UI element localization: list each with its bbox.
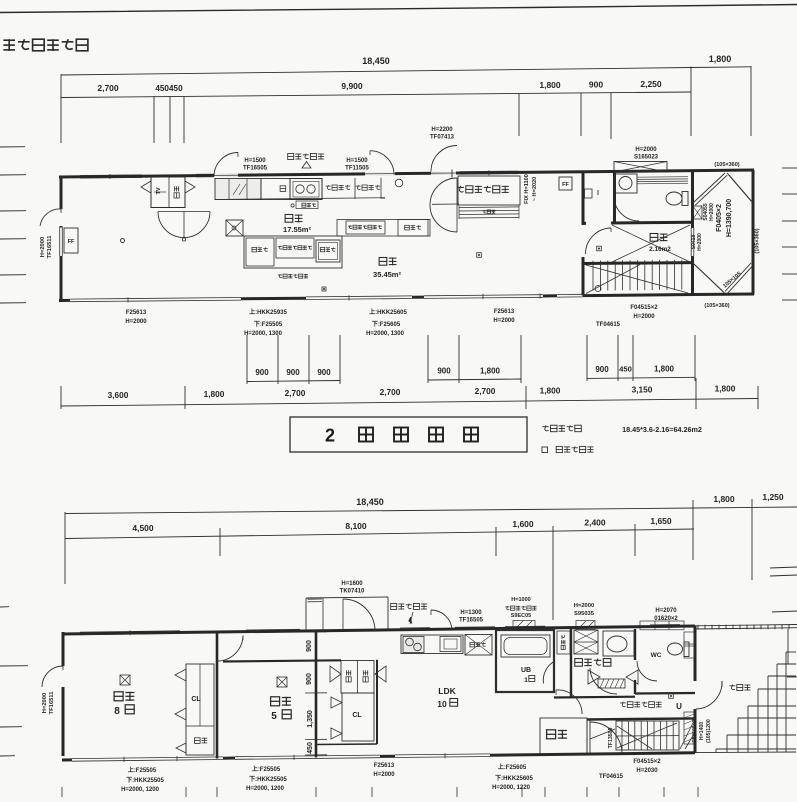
2F left outer wall — [60, 176, 63, 210]
floor area note — [542, 425, 581, 432]
svg-text:450: 450 — [307, 742, 314, 754]
svg-text:1,350: 1,350 — [307, 710, 314, 728]
svg-text:35.45m²: 35.45m² — [373, 270, 401, 279]
受付スペース — [458, 176, 520, 205]
closets right of 5帖 — [341, 661, 374, 694]
svg-text:1,800: 1,800 — [204, 389, 225, 399]
svg-text:TF04615: TF04615 — [596, 322, 621, 328]
interior dim chain x=316 — [305, 631, 327, 633]
svg-text:H=2000, 1200: H=2000, 1200 — [246, 786, 285, 792]
svg-text:9,900: 9,900 — [341, 81, 363, 91]
svg-text:TV: TV — [156, 187, 162, 194]
sink — [440, 637, 461, 652]
svg-text:1,800: 1,800 — [715, 384, 736, 394]
svg-text:H=2000: H=2000 — [373, 772, 395, 778]
porch bottom edge — [695, 751, 796, 754]
svg-text:1,650: 1,650 — [650, 516, 672, 526]
ポーチ label — [729, 685, 750, 691]
CL box (5帖) — [342, 693, 374, 741]
wall west of 5帖 — [216, 632, 219, 759]
svg-text:H=2000: H=2000 — [709, 203, 715, 221]
svg-text:H=2070: H=2070 — [655, 608, 677, 614]
emergency light mark — [477, 253, 482, 258]
2F tier-A dim segments — [247, 381, 340, 382]
svg-text:上:F25505: 上:F25505 — [128, 766, 157, 774]
ワークテーブル — [346, 221, 385, 234]
svg-text:900: 900 — [306, 640, 313, 652]
svg-text:450: 450 — [619, 365, 632, 374]
1F left outer wall — [62, 632, 65, 666]
svg-text:2,700: 2,700 — [285, 388, 306, 398]
2F top wall window segments — [80, 177, 142, 180]
svg-text:CL: CL — [191, 696, 201, 703]
UB bath — [496, 630, 554, 692]
svg-text:2,700: 2,700 — [475, 386, 496, 396]
svg-text:上:F25605: 上:F25605 — [498, 763, 527, 771]
svg-text:UB: UB — [521, 667, 531, 674]
room 洋室8帖 — [120, 675, 130, 685]
FF heater 2F left — [64, 228, 78, 253]
svg-text:下:F25505: 下:F25505 — [254, 321, 283, 328]
svg-text:上:HKK25935: 上:HKK25935 — [249, 308, 287, 316]
note text すること top-left — [3, 39, 88, 51]
1F overall dim 18,450 — [65, 508, 695, 514]
door mark — [175, 708, 186, 720]
narrow cabinet with rotated label — [557, 631, 570, 654]
svg-text:8,100: 8,100 — [345, 521, 367, 531]
冷蔵庫 1F — [465, 635, 492, 656]
svg-text:H=1400: H=1400 — [699, 722, 705, 740]
vent mark — [302, 162, 311, 169]
svg-text:CL: CL — [352, 712, 362, 719]
sink unit — [215, 179, 261, 200]
wall west of 洗面 — [570, 628, 572, 698]
1F bottom outer wall (walls + window runs) — [62, 758, 72, 761]
1F left door arc — [42, 666, 63, 687]
entry door arc — [590, 722, 622, 754]
svg-text:3,600: 3,600 — [108, 390, 129, 400]
svg-text:2,250: 2,250 — [640, 79, 662, 89]
window with X above WC — [614, 162, 667, 173]
corridor door arc — [586, 228, 612, 254]
svg-text:8: 8 — [114, 706, 120, 717]
2F tier-B dim line — [61, 399, 758, 407]
svg-text:1,800: 1,800 — [654, 364, 675, 373]
door mark — [330, 666, 341, 682]
bottom edge dim ticks — [61, 787, 63, 797]
WC door arc — [614, 196, 639, 221]
svg-text:F04515×2: F04515×2 — [633, 759, 661, 765]
svg-text:900: 900 — [437, 367, 451, 376]
svg-text:1,800: 1,800 — [540, 385, 561, 395]
1F outer top wall — [62, 626, 695, 634]
svg-text:4,500: 4,500 — [132, 523, 154, 533]
洗面 door arc — [590, 668, 617, 694]
corridor door arc (5帖) — [218, 636, 244, 662]
FF heater 2F right — [559, 177, 572, 190]
svg-text:1,800: 1,800 — [709, 54, 732, 64]
svg-text:H=1500: H=1500 — [346, 158, 368, 164]
svg-text:18.45*3.6-2.16=64.26m2: 18.45*3.6-2.16=64.26m2 — [622, 425, 702, 434]
emergency light mark corridor — [597, 246, 602, 251]
svg-text:10: 10 — [437, 699, 447, 709]
svg-text:TF16511: TF16511 — [49, 691, 55, 715]
svg-text:01620×2: 01620×2 — [654, 616, 678, 622]
small fixture corridor — [585, 189, 593, 198]
ワゴンラック label — [278, 274, 308, 278]
svg-text:TF11505: TF11505 — [345, 166, 369, 172]
light mark on sill — [322, 287, 326, 291]
bay door arc — [343, 599, 375, 631]
エントランス hall — [620, 702, 661, 708]
winder diagonal — [680, 721, 694, 749]
WC wash basin — [615, 174, 637, 193]
counter 台 — [261, 179, 290, 200]
right margin row stubs — [782, 167, 797, 169]
closet strip CL/収納 (8帖) — [186, 664, 214, 755]
kitchen unit row bottom line — [215, 198, 385, 200]
svg-text:F25613: F25613 — [126, 310, 147, 316]
svg-text:TF07413: TF07413 — [430, 135, 455, 141]
door centerline — [432, 203, 459, 205]
排気口出し label — [288, 154, 324, 160]
svg-text:H=2000: H=2000 — [493, 318, 515, 324]
stair diagonal 2 — [586, 265, 640, 294]
kitchen door arc 1F — [431, 610, 452, 630]
svg-text:(105)1200: (105)1200 — [706, 719, 712, 743]
svg-text:1,800: 1,800 — [713, 494, 735, 504]
冷蔵庫 — [246, 238, 274, 266]
svg-text:17.55m²: 17.55m² — [283, 225, 311, 234]
svg-text:H=1500: H=1500 — [244, 158, 266, 164]
収納 label rotated — [174, 186, 179, 198]
svg-text:下:HKK25605: 下:HKK25605 — [495, 775, 533, 782]
svg-text:WC: WC — [651, 652, 662, 659]
玄関 — [540, 718, 587, 755]
客席 label — [379, 258, 396, 266]
vent arrow — [410, 612, 413, 624]
1F right wall of house — [694, 626, 697, 681]
製氷機 — [316, 240, 340, 262]
svg-text:TF16505: TF16505 — [243, 166, 268, 172]
svg-text:H=2030: H=2030 — [636, 768, 658, 774]
svg-text:F04515×2: F04515×2 — [630, 305, 658, 311]
svg-text:~ H=2020: ~ H=2020 — [532, 177, 538, 202]
svg-text:(105×360): (105×360) — [755, 228, 761, 253]
door mark — [176, 743, 186, 753]
hall to genkan door arc — [556, 690, 582, 714]
svg-text:U: U — [676, 702, 682, 711]
winder diagonal 2 — [685, 734, 694, 749]
svg-text:S9EC05: S9EC05 — [511, 613, 532, 619]
svg-text:F04505×3: F04505×3 — [692, 719, 698, 743]
shelf hatch band right of basin — [637, 176, 688, 179]
LDK kitchen counter — [401, 635, 463, 654]
label SK元 — [302, 203, 316, 207]
台 label — [280, 186, 286, 192]
排気筒出し label — [391, 604, 427, 610]
corridor south wall — [223, 660, 341, 661]
room 洋室5帖 — [277, 677, 287, 687]
svg-text:(105×360): (105×360) — [704, 303, 729, 309]
closet east wall — [376, 660, 378, 744]
svg-text:1,600: 1,600 — [512, 519, 534, 529]
svg-text:H=2000: H=2000 — [40, 237, 46, 257]
door mark — [331, 697, 342, 708]
ガス給湯 label — [326, 185, 351, 190]
svg-text:LDK: LDK — [438, 686, 456, 696]
UB door arc — [543, 662, 554, 684]
CL bottom — [316, 743, 377, 746]
wall dim chain — [315, 631, 318, 758]
2F door openings on top wall — [214, 174, 238, 177]
洗面脱衣 label — [575, 659, 611, 667]
1F top wall windows — [80, 633, 180, 634]
page top rule — [0, 5, 797, 13]
svg-text:H=2000: H=2000 — [633, 314, 655, 320]
title box 2階平面図 — [290, 417, 527, 452]
厨房 label — [285, 215, 302, 223]
sliding door mark right — [185, 181, 195, 193]
2F right outer wall — [752, 170, 755, 295]
svg-text:900: 900 — [255, 368, 269, 377]
svg-text:H=2000: H=2000 — [574, 603, 594, 609]
svg-text:900: 900 — [595, 365, 609, 374]
hatched window markers above wall — [513, 621, 535, 630]
svg-text:2,700: 2,700 — [97, 83, 119, 93]
svg-text:F25613: F25613 — [374, 763, 395, 769]
svg-text:(105×360): (105×360) — [714, 162, 739, 168]
コールドテーブル — [276, 238, 314, 258]
客席 counter row — [337, 220, 430, 237]
svg-text:1,250: 1,250 — [762, 492, 784, 502]
svg-text:下:HKK25505: 下:HKK25505 — [126, 777, 164, 784]
svg-text:F0405×2: F0405×2 — [716, 204, 723, 232]
svg-text:TF04615: TF04615 — [599, 774, 624, 780]
svg-text:TF13505: TF13505 — [608, 728, 614, 749]
stair mid line — [616, 735, 679, 737]
svg-text:S95035: S95035 — [574, 611, 595, 617]
洗面 south wall — [554, 696, 635, 699]
porch right edge — [787, 629, 789, 664]
svg-text:18,450: 18,450 — [362, 56, 390, 66]
door mark — [331, 728, 342, 739]
porch entry door arc — [696, 681, 722, 709]
door swing triangles 洗面 — [588, 670, 600, 684]
svg-text:H=2000: H=2000 — [697, 233, 703, 251]
left wall door arc — [40, 209, 61, 226]
svg-text:FF: FF — [562, 182, 569, 188]
small window box with X on balcony west wall — [693, 206, 702, 219]
svg-text:900: 900 — [286, 368, 300, 377]
svg-text:2.16m2: 2.16m2 — [649, 246, 671, 253]
svg-text:TF16511: TF16511 — [47, 235, 53, 259]
svg-text:900: 900 — [317, 368, 331, 377]
吹抜 void X — [612, 225, 690, 262]
double fan door below closet — [158, 212, 184, 238]
svg-text:下:F25605: 下:F25605 — [372, 321, 401, 328]
wash basin 1F — [603, 631, 634, 656]
svg-text:FF: FF — [68, 239, 75, 245]
svg-text:1,800: 1,800 — [480, 366, 501, 375]
svg-text:H=1390,700: H=1390,700 — [726, 199, 733, 237]
svg-text:H=2000: H=2000 — [125, 319, 147, 325]
svg-text:1,800: 1,800 — [539, 80, 561, 90]
svg-text:2,700: 2,700 — [380, 387, 401, 397]
svg-text:H=2000, 1220: H=2000, 1220 — [492, 785, 531, 791]
1F tier2 dim — [65, 529, 694, 539]
kitchen island counter — [244, 236, 342, 268]
svg-text:TK07410: TK07410 — [340, 589, 365, 595]
WC west wall — [634, 629, 636, 660]
kitchen top door arcs — [214, 153, 238, 177]
left margin row stubs (lower) — [0, 606, 9, 608]
porch area — [695, 625, 797, 626]
tub — [501, 635, 550, 657]
svg-text:3,150: 3,150 — [632, 385, 653, 395]
svg-text:下:HKK25505: 下:HKK25505 — [249, 776, 287, 783]
洗濯機 box (two X panels stacked) — [574, 630, 598, 654]
WC south wall — [635, 692, 695, 695]
吹抜 label — [650, 234, 667, 242]
reception counter hatch — [459, 206, 519, 209]
SK box below range — [296, 201, 318, 209]
2F second-tier dimension line — [61, 92, 691, 98]
hall/stair wall — [587, 718, 695, 719]
svg-text:H=2000, 1300: H=2000, 1300 — [366, 331, 405, 337]
left margin row stubs (upper) — [0, 146, 25, 148]
svg-text:H=2000: H=2000 — [635, 147, 657, 153]
svg-text:F25613: F25613 — [494, 309, 515, 315]
svg-text:H=1300: H=1300 — [460, 610, 482, 616]
2F balcony corner braces (double diagonals) — [693, 173, 725, 203]
WC toilet — [666, 192, 682, 205]
2F outer top wall — [59, 170, 754, 177]
svg-text:18,450: 18,450 — [356, 497, 384, 507]
door mark — [375, 666, 386, 682]
オーブン label — [356, 185, 381, 190]
svg-text:S165023: S165023 — [634, 155, 659, 161]
sliding door mark left — [141, 181, 151, 193]
1F stairs — [616, 721, 679, 750]
svg-text:450450: 450450 — [155, 84, 183, 93]
interior wall right block — [582, 172, 585, 226]
WC door arc — [637, 661, 657, 681]
stair diagonal — [586, 265, 688, 293]
gas range — [290, 179, 322, 200]
exhaust bay protrusion — [306, 597, 388, 598]
svg-text:900: 900 — [306, 673, 313, 685]
2F dim ticks — [60, 74, 62, 143]
TV/closet block on top wall — [151, 177, 185, 208]
door mark — [175, 669, 186, 681]
物入 hatch — [598, 679, 625, 688]
svg-text:H=1600: H=1600 — [341, 581, 363, 587]
svg-text:900: 900 — [589, 80, 603, 90]
svg-text:H=2000, 1200: H=2000, 1200 — [121, 787, 160, 793]
legend 非常用照明 — [542, 447, 548, 453]
svg-text:2,400: 2,400 — [584, 518, 606, 528]
emergency light mark — [121, 239, 125, 243]
svg-text:5: 5 — [271, 711, 277, 722]
equipment box with X (kitchen) — [226, 220, 243, 236]
fan radius — [590, 729, 615, 739]
hatch boxes on right wall — [684, 632, 695, 644]
2F stairs — [592, 261, 594, 291]
svg-text:上:F25505: 上:F25505 — [252, 765, 281, 773]
svg-text:上:HKK25605: 上:HKK25605 — [369, 308, 407, 316]
食器棚 — [398, 220, 428, 237]
2F bottom outer wall (walls + window runs) — [59, 299, 70, 302]
svg-text:H=2000: H=2000 — [42, 693, 48, 713]
svg-text:TF16505: TF16505 — [459, 618, 484, 624]
svg-text:H=2200: H=2200 — [431, 127, 453, 133]
2F overall dimension line 18,450 — [61, 68, 691, 76]
svg-text:H=1000: H=1000 — [511, 597, 530, 603]
porch steps nested — [786, 651, 796, 653]
svg-text:FIX H=1100: FIX H=1100 — [524, 174, 530, 204]
svg-text:2: 2 — [325, 426, 335, 446]
reception door arcs — [430, 178, 457, 232]
svg-text:1: 1 — [524, 677, 528, 684]
stove — [403, 637, 424, 653]
svg-text:H=2000, 1300: H=2000, 1300 — [244, 331, 283, 337]
